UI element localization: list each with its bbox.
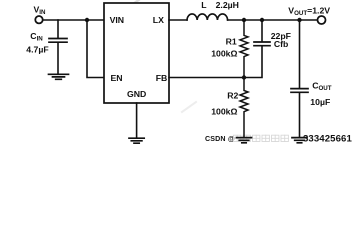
label VIN	[34, 4, 47, 16]
svg-text:VIN: VIN	[110, 15, 124, 25]
label Cfb 22pF	[271, 31, 291, 49]
wire inductor to VOUT	[228, 19, 318, 21]
pin FB	[156, 73, 168, 83]
node FB junction	[242, 75, 246, 79]
pin LX	[153, 15, 164, 25]
svg-text:Cfb: Cfb	[274, 39, 288, 49]
svg-text:R2: R2	[227, 91, 238, 101]
svg-text:R1: R1	[226, 37, 237, 47]
wire LX out	[169, 19, 187, 21]
wire CIN tap	[57, 20, 59, 38]
label R1 100kOhm	[211, 37, 237, 59]
pin GND	[127, 89, 146, 99]
resistor R1	[240, 20, 248, 78]
faint diagonal watermark streak 1	[121, 0, 141, 13]
node VIN terminal	[35, 16, 42, 23]
svg-text:100kΩ: 100kΩ	[211, 107, 237, 117]
label R2 100kOhm	[211, 91, 238, 117]
svg-text:GND: GND	[127, 89, 146, 99]
wire GND pin down	[136, 103, 138, 138]
ground (CIN)	[49, 74, 69, 79]
IC U1 buck regulator box	[104, 3, 169, 103]
svg-text:2.2µH: 2.2µH	[216, 0, 239, 10]
svg-text:LX: LX	[153, 15, 164, 25]
faint diagonal watermark streak 2	[182, 102, 196, 112]
label L 2.2uH	[201, 0, 239, 10]
node VOUT terminal	[318, 16, 326, 24]
capacitor COUT	[299, 20, 301, 88]
label CIN 4.7uF	[26, 31, 48, 55]
wire FB to node	[169, 77, 244, 79]
pin VIN	[110, 15, 124, 25]
CSDN watermark text	[205, 134, 352, 145]
capacitor Cfb 22pF	[261, 20, 263, 41]
inductor L 2.2uH	[187, 14, 228, 20]
label COUT 10uF	[310, 80, 331, 106]
pin EN	[111, 73, 123, 83]
label VOUT=1.2V	[288, 6, 330, 18]
svg-text:L: L	[201, 0, 207, 10]
svg-text:333425661: 333425661	[303, 134, 352, 145]
node EN tie junction	[85, 18, 89, 22]
ground (IC GND)	[129, 138, 144, 143]
wire CIN to ground	[57, 43, 59, 74]
svg-text:EN: EN	[111, 73, 123, 83]
svg-text:CSDN @: CSDN @	[205, 135, 235, 143]
node output junction	[242, 18, 246, 22]
ground (R2)	[237, 138, 252, 143]
node Cfb top junction	[260, 18, 264, 22]
ground (COUT)	[292, 138, 307, 143]
wire VIN to IC	[43, 19, 104, 21]
svg-text:10µF: 10µF	[310, 97, 330, 107]
node COUT junction	[297, 18, 301, 22]
svg-text:100kΩ: 100kΩ	[211, 49, 237, 59]
svg-text:FB: FB	[156, 73, 168, 83]
capacitor CIN	[49, 39, 67, 43]
resistor R2	[240, 78, 248, 138]
wire EN tie	[87, 20, 104, 78]
svg-text:4.7µF: 4.7µF	[26, 45, 48, 55]
